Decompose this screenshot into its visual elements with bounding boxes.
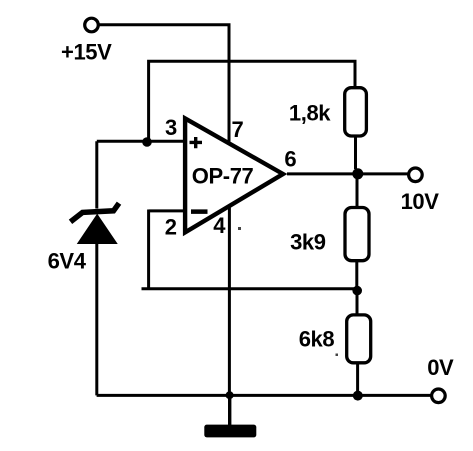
svg-text:3k9: 3k9 — [290, 230, 326, 255]
resistor R2 3k9 body — [345, 208, 369, 261]
ground symbol bar — [204, 425, 256, 438]
terminal 10V — [409, 168, 423, 182]
wire output node to 3k9 — [356, 179, 359, 206]
node 0V junction — [353, 391, 363, 401]
svg-text:+15V: +15V — [61, 40, 112, 65]
svg-text:3: 3 — [165, 115, 177, 140]
wire inverting input pin 2 stub — [149, 209, 187, 212]
node ground junction — [226, 391, 234, 399]
op-amp plus input marking — [190, 137, 203, 148]
svg-text:1,8k: 1,8k — [289, 101, 331, 126]
wire zener cathode — [95, 141, 98, 208]
speck artifact near pin 4 — [238, 227, 241, 230]
svg-text:10V: 10V — [401, 189, 440, 214]
terminal +15V — [85, 18, 99, 32]
wire +15V to op-amp pin 7 — [99, 25, 229, 142]
svg-text:4: 4 — [213, 213, 226, 238]
wire 3k9 to feedback node — [355, 262, 358, 290]
node feedback junction — [352, 286, 362, 296]
op-amp U1 OP-77 body — [185, 118, 283, 232]
resistor R3 6k8 body — [347, 315, 371, 363]
wire op-amp output pin 6 — [287, 172, 409, 175]
terminal 0V — [432, 389, 446, 403]
wire 6k8 to 0V rail — [356, 364, 359, 395]
node pin 3 junction — [142, 137, 152, 147]
wire 1.8k top to pin 3 node — [149, 61, 355, 139]
wire feedback node to 6k8 — [356, 290, 359, 314]
svg-text:0V: 0V — [427, 355, 454, 380]
svg-text:6k8: 6k8 — [299, 327, 335, 352]
wire feedback loop — [142, 210, 356, 289]
zener diode D1 cathode bar — [71, 203, 120, 222]
speck artifact near 6k8 — [336, 354, 339, 357]
wire non-inverting input pin 3 — [97, 140, 187, 143]
wire 1.8k to output node — [354, 137, 357, 169]
op-amp minus input marking — [191, 209, 208, 214]
node output junction — [352, 168, 363, 179]
svg-text:OP-77: OP-77 — [192, 163, 254, 188]
wire pin 4 to ground — [228, 207, 231, 396]
svg-text:6V4: 6V4 — [48, 249, 87, 274]
wire 0V rail — [97, 394, 431, 397]
svg-text:2: 2 — [165, 215, 177, 240]
svg-text:6: 6 — [284, 147, 296, 172]
resistor R1 1,8k body — [345, 88, 367, 136]
wire zener anode to 0V rail — [95, 243, 98, 395]
svg-text:7: 7 — [231, 117, 243, 142]
zener diode D1 anode triangle — [78, 215, 117, 244]
ground stem — [228, 395, 231, 425]
